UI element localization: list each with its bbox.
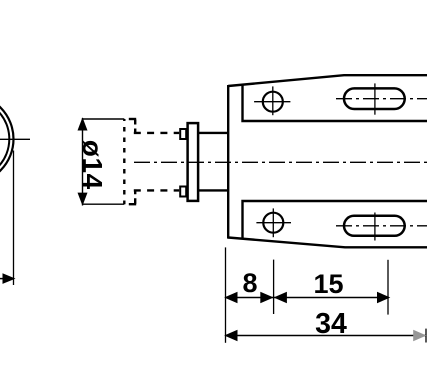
svg-text:15: 15 <box>313 269 343 299</box>
svg-text:ø14: ø14 <box>77 140 108 190</box>
svg-text:34: 34 <box>315 308 347 340</box>
svg-text:8: 8 <box>242 268 257 298</box>
